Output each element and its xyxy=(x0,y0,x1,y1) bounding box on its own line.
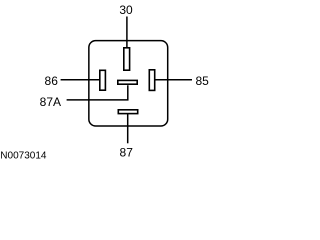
svg-text:30: 30 xyxy=(119,3,133,17)
wire lead pin 85 xyxy=(155,79,192,81)
svg-text:86: 86 xyxy=(45,74,59,88)
terminal slot 85 xyxy=(149,70,154,91)
wire lead pin 30 xyxy=(126,17,128,48)
svg-text:85: 85 xyxy=(196,74,210,88)
terminal slot 87 xyxy=(118,110,137,114)
wire lead pin 87A xyxy=(67,85,128,100)
relay body outline xyxy=(89,41,168,126)
svg-text:87: 87 xyxy=(120,146,134,160)
terminal slot 87A xyxy=(118,80,137,84)
wire lead pin 87 xyxy=(127,114,129,143)
svg-text:N0073014: N0073014 xyxy=(0,151,47,160)
wire lead pin 86 xyxy=(61,79,100,81)
terminal slot 30 xyxy=(124,48,130,70)
svg-text:87A: 87A xyxy=(40,95,61,109)
terminal slot 86 xyxy=(100,70,106,90)
